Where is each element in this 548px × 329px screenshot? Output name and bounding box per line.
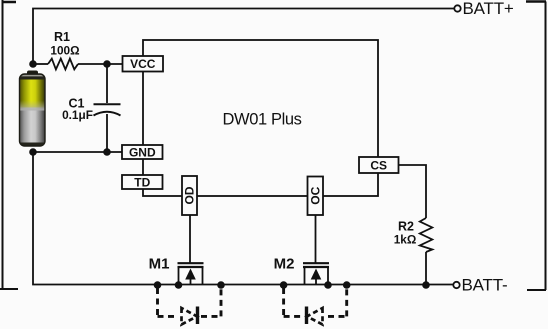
battery BT1 <box>20 71 46 147</box>
pin CS <box>359 157 399 173</box>
junction node M2 source on rail <box>324 281 332 289</box>
svg-text:R2: R2 <box>398 220 414 234</box>
junction node R2 on rail <box>422 281 430 289</box>
wire C1 top lead <box>106 64 108 103</box>
wire R1 left lead <box>33 63 48 65</box>
frame right border <box>545 2 547 291</box>
wire CS to R2 <box>399 165 427 218</box>
wire GND rail from battery to GND pin <box>33 151 122 153</box>
pin OC <box>308 177 324 216</box>
frame bottom-right stub <box>527 289 546 291</box>
body diode D1 <box>182 307 198 325</box>
svg-text:BATT-: BATT- <box>462 276 508 295</box>
svg-text:GND: GND <box>129 145 156 159</box>
junction node C1-GND <box>103 148 111 156</box>
wire OD to M1 gate <box>189 215 191 263</box>
frame bottom-left stub <box>0 288 18 290</box>
junction node R1-C1-VCC <box>103 60 111 68</box>
junction node D1 right on rail <box>217 281 225 289</box>
capacitor C1 <box>94 104 121 115</box>
junction node battery bottom <box>29 148 37 156</box>
svg-text:M2: M2 <box>274 256 295 273</box>
pin GND <box>122 145 163 159</box>
body diode D2 <box>307 307 323 325</box>
svg-text:0.1μF: 0.1μF <box>62 108 93 122</box>
junction node D2 right on rail <box>343 281 351 289</box>
svg-text:100Ω: 100Ω <box>50 44 79 58</box>
wire BATT+ top rail <box>33 9 454 65</box>
wire C1 bottom lead <box>106 114 108 152</box>
junction node D1 left on rail <box>154 281 162 289</box>
pin TD <box>122 175 163 189</box>
svg-text:OD: OD <box>183 186 197 204</box>
terminal BATT- <box>453 276 507 295</box>
svg-text:VCC: VCC <box>130 57 156 71</box>
svg-text:BATT+: BATT+ <box>463 0 514 18</box>
svg-text:OC: OC <box>308 186 322 204</box>
frame top-left stub <box>2 1 16 4</box>
wire R1 right lead to VCC node <box>78 63 123 65</box>
svg-text:DW01 Plus: DW01 Plus <box>223 111 302 129</box>
pin OD <box>182 176 197 215</box>
frame top-right stub <box>526 0 546 3</box>
junction node R1-battery top <box>29 60 37 68</box>
svg-text:M1: M1 <box>149 256 170 273</box>
wire OC to M2 gate <box>315 215 317 263</box>
svg-text:CS: CS <box>370 159 387 173</box>
body diode D1 dashed enclosure <box>158 288 222 316</box>
resistor R2 <box>420 218 433 252</box>
wire battery negative to bottom rail <box>33 152 453 285</box>
IC U1 DW01 Plus body <box>143 40 378 196</box>
wire R2 bottom lead <box>425 252 427 285</box>
junction node D2 left on rail <box>280 281 288 289</box>
svg-text:1kΩ: 1kΩ <box>394 233 417 247</box>
frame left border <box>2 0 4 289</box>
junction node M1 drain on rail <box>175 281 183 289</box>
svg-text:TD: TD <box>134 175 150 189</box>
pin VCC <box>123 56 164 72</box>
terminal BATT+ <box>454 0 514 18</box>
svg-text:R1: R1 <box>54 30 70 44</box>
transistor M1 <box>178 263 204 285</box>
body diode D2 dashed enclosure <box>284 288 347 316</box>
resistor R1 <box>48 59 78 70</box>
transistor M2 <box>303 263 329 285</box>
